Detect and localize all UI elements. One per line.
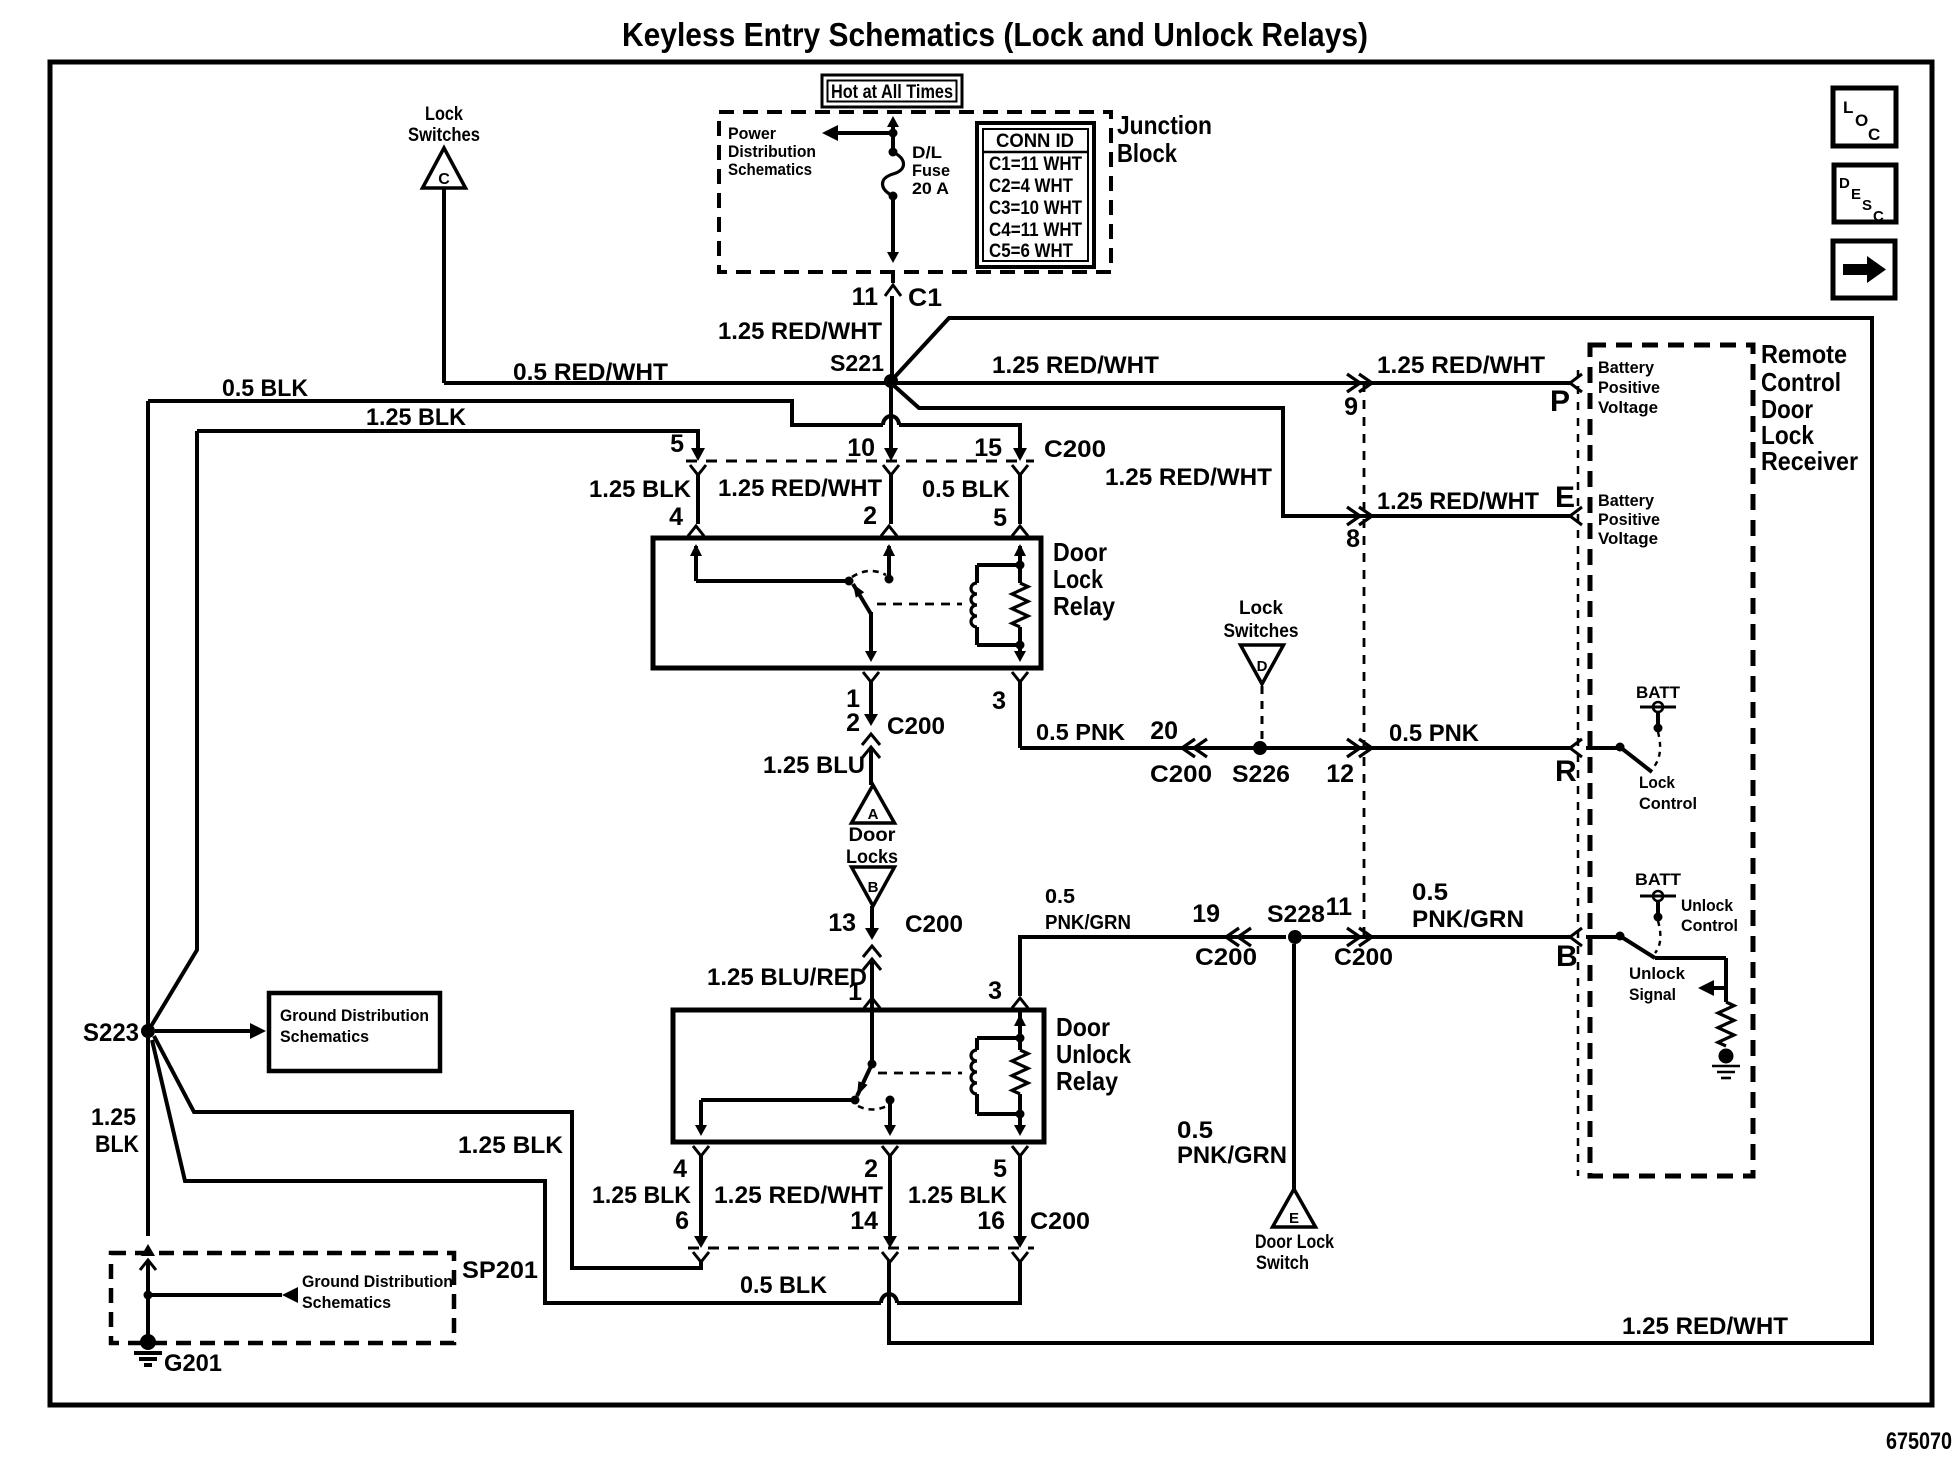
svg-text:1.25 RED/WHT: 1.25 RED/WHT (1377, 352, 1545, 379)
wire: 0.5 BLK pin 16 to S223 (897, 1262, 1020, 1303)
svg-text:1.25 RED/WHT: 1.25 RED/WHT (1105, 464, 1272, 491)
svg-text:1.25 BLK: 1.25 BLK (366, 404, 467, 431)
svg-text:1.25 BLU: 1.25 BLU (763, 752, 865, 779)
svg-text:Control: Control (1761, 367, 1841, 397)
svg-text:5: 5 (993, 1155, 1007, 1183)
Door Unlock Relay box (673, 1010, 1044, 1142)
ground G201 (140, 1334, 156, 1350)
svg-text:S: S (1862, 197, 1872, 214)
svg-text:5: 5 (993, 504, 1007, 532)
svg-text:E: E (1555, 481, 1575, 514)
svg-text:1.25 RED/WHT: 1.25 RED/WHT (1377, 488, 1539, 515)
svg-text:Relay: Relay (1053, 591, 1115, 621)
svg-text:B: B (1556, 940, 1578, 973)
wire: S221 to P (1.25 RED/WHT) (891, 381, 1572, 385)
svg-text:Positive: Positive (1598, 378, 1660, 397)
svg-text:PNK/GRN: PNK/GRN (1412, 906, 1524, 933)
svg-text:PNK/GRN: PNK/GRN (1045, 912, 1131, 934)
svg-text:0.5: 0.5 (1177, 1117, 1213, 1144)
svg-text:1.25 BLU/RED: 1.25 BLU/RED (707, 964, 867, 991)
svg-text:C2=4 WHT: C2=4 WHT (989, 176, 1073, 197)
svg-text:C: C (1868, 125, 1880, 144)
svg-text:C: C (438, 171, 450, 188)
svg-text:Unlock: Unlock (1681, 896, 1733, 915)
DESC icon (1834, 165, 1896, 222)
svg-text:Battery: Battery (1598, 358, 1655, 377)
svg-text:1.25 RED/WHT: 1.25 RED/WHT (992, 352, 1159, 379)
svg-text:2: 2 (863, 502, 877, 530)
lock relay resistor (1016, 561, 1025, 570)
svg-text:Schematics: Schematics (302, 1293, 391, 1312)
wire: S221 to E (1.25 RED/WHT) (891, 383, 1572, 516)
svg-text:Junction: Junction (1117, 110, 1212, 140)
svg-text:Ground Distribution: Ground Distribution (302, 1272, 453, 1291)
wire: 1.25 BLK pin 6 to S223 (154, 1036, 701, 1268)
power distribution reference arrow (838, 131, 893, 135)
wire: 1.25 RED/WHT pin 14 down to loop (887, 1262, 891, 1343)
lock relay pin 3 exit (1012, 672, 1028, 682)
connector 11 C200 column (1347, 928, 1360, 946)
svg-text:1.25 RED/WHT: 1.25 RED/WHT (1622, 1313, 1788, 1340)
svg-text:Switches: Switches (1224, 621, 1299, 642)
svg-text:12: 12 (1326, 760, 1354, 788)
svg-text:C200: C200 (1150, 761, 1212, 788)
svg-text:L: L (1843, 98, 1853, 117)
Remote Control Door Lock Receiver dashed box (1590, 345, 1753, 1176)
grid connector triangle E (1273, 1189, 1316, 1227)
svg-text:Ground Distribution: Ground Distribution (280, 1006, 429, 1025)
svg-text:11: 11 (1326, 893, 1353, 921)
grid connector triangle A (852, 785, 895, 823)
svg-text:0.5 BLK: 0.5 BLK (922, 476, 1011, 503)
unlock relay pin 3 entry (1012, 998, 1028, 1008)
svg-text:1.25 RED/WHT: 1.25 RED/WHT (714, 1182, 883, 1209)
svg-text:SP201: SP201 (462, 1257, 538, 1284)
svg-text:13: 13 (828, 909, 856, 937)
svg-text:9: 9 (1344, 393, 1358, 421)
grid connector triangle C (423, 148, 466, 188)
svg-text:PNK/GRN: PNK/GRN (1177, 1142, 1287, 1169)
svg-text:G201: G201 (164, 1350, 222, 1377)
svg-text:Signal: Signal (1629, 985, 1676, 1004)
svg-text:S221: S221 (830, 350, 884, 376)
svg-text:0.5 PNK: 0.5 PNK (1036, 719, 1125, 745)
lock relay switch (696, 579, 847, 583)
receiver connector dashed line (1577, 370, 1580, 1176)
svg-text:C200: C200 (905, 911, 963, 938)
svg-text:15: 15 (974, 434, 1002, 462)
unlock signal arrow (1714, 986, 1726, 990)
unlock relay switch (868, 1060, 877, 1069)
unlock relay pin 1 entry (864, 998, 880, 1008)
svg-text:1.25 BLK: 1.25 BLK (592, 1182, 692, 1209)
receiver resistor (1718, 1002, 1734, 1046)
svg-text:D/L: D/L (912, 143, 942, 162)
connector C1 pin 11 (891, 272, 895, 283)
connector 8 (C200 column) (1347, 507, 1360, 525)
svg-text:4: 4 (673, 1155, 687, 1183)
grid connector triangle B (852, 867, 895, 906)
svg-text:Battery: Battery (1598, 491, 1655, 510)
wire: 0.5 PNK lock relay pin 3 to R (1020, 746, 1572, 750)
svg-text:0.5 BLK: 0.5 BLK (222, 375, 309, 402)
svg-text:Control: Control (1639, 794, 1697, 813)
svg-text:Voltage: Voltage (1598, 529, 1658, 548)
svg-text:0.5 RED/WHT: 0.5 RED/WHT (513, 359, 668, 386)
svg-text:Unlock: Unlock (1056, 1039, 1131, 1069)
svg-text:1.25 RED/WHT: 1.25 RED/WHT (718, 475, 882, 502)
svg-text:4: 4 (669, 503, 683, 531)
svg-text:C200: C200 (1030, 1208, 1090, 1235)
connector C200 top dashed line (686, 460, 1034, 463)
LOC icon (1833, 88, 1896, 146)
lock relay pin 2 entry (881, 526, 897, 536)
svg-text:Positive: Positive (1598, 510, 1660, 529)
svg-text:675070: 675070 (1886, 1428, 1952, 1455)
svg-text:3: 3 (988, 977, 1002, 1005)
receiver pin R (1570, 739, 1582, 757)
svg-text:14: 14 (850, 1207, 878, 1235)
svg-text:BLK: BLK (95, 1131, 140, 1158)
svg-text:1.25 BLK: 1.25 BLK (908, 1182, 1008, 1209)
svg-text:Relay: Relay (1056, 1066, 1118, 1096)
svg-text:1.25: 1.25 (91, 1104, 136, 1131)
C200 bottom pin arrows (694, 1236, 708, 1248)
svg-text:C5=6 WHT: C5=6 WHT (989, 241, 1073, 262)
svg-text:Lock: Lock (1239, 598, 1283, 619)
splice S223 (141, 1024, 155, 1038)
svg-text:16: 16 (977, 1207, 1005, 1235)
svg-text:E: E (1851, 186, 1861, 203)
svg-text:20 A: 20 A (912, 179, 949, 198)
svg-text:C200: C200 (1195, 944, 1257, 971)
svg-text:1.25 BLK: 1.25 BLK (589, 476, 692, 503)
lock relay pin 4 entry (688, 526, 704, 536)
svg-text:Voltage: Voltage (1598, 398, 1658, 417)
svg-text:0.5 BLK: 0.5 BLK (740, 1272, 828, 1299)
wire: triangle B to connector 13 (870, 906, 874, 916)
svg-text:Unlock: Unlock (1629, 964, 1686, 983)
C200 in-line connector dashed column (1363, 383, 1366, 942)
svg-text:E: E (1289, 1210, 1299, 1227)
receiver pin B (1570, 928, 1582, 946)
svg-text:Switch: Switch (1256, 1253, 1309, 1274)
svg-text:Hot at All Times: Hot at All Times (831, 82, 953, 103)
svg-text:Distribution: Distribution (728, 142, 816, 161)
svg-text:O: O (1855, 111, 1868, 130)
svg-text:BATT: BATT (1636, 683, 1681, 702)
svg-text:0.5: 0.5 (1412, 879, 1448, 906)
svg-text:Control: Control (1681, 916, 1738, 935)
svg-text:Schematics: Schematics (728, 160, 812, 179)
next-page arrow icon (1833, 241, 1895, 298)
svg-text:P: P (1550, 385, 1570, 418)
svg-text:3: 3 (992, 687, 1006, 715)
svg-text:0.5: 0.5 (1045, 886, 1075, 908)
svg-text:D: D (1839, 175, 1850, 192)
svg-text:1.25 RED/WHT: 1.25 RED/WHT (718, 318, 882, 345)
wire: 0.5 BLK (left vertical to S223) (146, 401, 150, 1026)
wire: S223 down to G201 (146, 1031, 150, 1236)
svg-text:10: 10 (847, 434, 875, 462)
SP201 reference arrow (144, 1291, 153, 1300)
svg-text:Fuse: Fuse (912, 161, 950, 180)
svg-text:Door: Door (1053, 537, 1107, 567)
svg-text:C1: C1 (908, 284, 942, 312)
svg-text:C200: C200 (887, 713, 945, 740)
svg-text:R: R (1555, 755, 1577, 788)
svg-text:Power: Power (728, 124, 776, 143)
junction block dashed box (719, 112, 1111, 272)
connector 12 C200 column (1347, 739, 1360, 757)
svg-text:2: 2 (846, 709, 860, 737)
Hot at All Times tag (822, 75, 962, 107)
svg-text:C3=10 WHT: C3=10 WHT (989, 198, 1082, 219)
svg-text:C200: C200 (1334, 944, 1393, 971)
grid connector triangle D (1241, 645, 1284, 684)
wire: 0.5 PNK/GRN S228 to unlock pin 3 (1020, 937, 1286, 996)
svg-text:Switches: Switches (408, 125, 480, 146)
svg-text:Block: Block (1117, 138, 1177, 168)
wire: 0.5 PNK/GRN S228 to triangle E (1292, 944, 1296, 1189)
svg-text:Schematics: Schematics (280, 1027, 369, 1046)
CONN ID table (977, 123, 1094, 267)
svg-text:C1=11 WHT: C1=11 WHT (989, 154, 1082, 175)
svg-text:S223: S223 (83, 1019, 139, 1047)
Door Lock Relay box (653, 538, 1041, 668)
unlock relay switch-coil dashed link (878, 1072, 962, 1075)
svg-text:C4=11 WHT: C4=11 WHT (989, 220, 1082, 241)
S223 reference arrow (155, 1029, 250, 1033)
ground distribution reference box (S223) (269, 993, 440, 1071)
unlock relay resistor (1016, 1034, 1025, 1043)
svg-text:1.25 BLK: 1.25 BLK (458, 1132, 564, 1159)
svg-text:Locks: Locks (846, 847, 898, 868)
svg-text:C200: C200 (1044, 436, 1106, 463)
svg-text:6: 6 (675, 1207, 689, 1235)
svg-text:CONN ID: CONN ID (996, 131, 1074, 152)
svg-text:Remote: Remote (1761, 339, 1847, 369)
receiver pin E (1570, 507, 1582, 525)
svg-text:A: A (868, 806, 879, 823)
lock relay switch-coil dashed link (877, 603, 962, 606)
svg-text:2: 2 (864, 1155, 878, 1183)
lock control switch (1586, 746, 1617, 750)
unlock relay pin exits (693, 1146, 709, 1156)
SP201 dashed box (111, 1253, 454, 1343)
svg-text:S228: S228 (1267, 901, 1325, 928)
wire: 0.5 BLK (top run to pin 15) (148, 401, 883, 425)
wire: triangle D to S226 (dashed) (1261, 686, 1264, 742)
svg-text:Receiver: Receiver (1761, 446, 1858, 476)
wire: power loop 1.25 RED/WHT (S221 top right bottom) (889, 318, 1872, 1343)
fuse F (D/L Fuse 20 A) wire (891, 121, 895, 150)
svg-text:BATT: BATT (1635, 870, 1682, 889)
splice S228 (1288, 930, 1302, 944)
lock relay pin 1 exit (863, 672, 879, 682)
svg-text:20: 20 (1150, 717, 1178, 745)
svg-text:0.5 PNK: 0.5 PNK (1389, 720, 1480, 747)
unlock relay coil (977, 1036, 1020, 1040)
receiver pin P (1570, 374, 1582, 392)
svg-text:8: 8 (1346, 525, 1360, 553)
connector C200 bottom dashed line (688, 1247, 1034, 1250)
wire: S228 to B (1302, 935, 1572, 939)
wire: triangle C down to 0.5 RED/WHT run (442, 188, 446, 383)
svg-text:Lock: Lock (1639, 773, 1675, 792)
svg-text:B: B (868, 879, 879, 896)
svg-text:19: 19 (1192, 900, 1220, 928)
connector 9 (C200 column) (1347, 374, 1360, 392)
svg-text:1: 1 (848, 978, 862, 1006)
svg-text:S226: S226 (1232, 761, 1290, 788)
svg-text:Lock: Lock (425, 104, 463, 125)
svg-text:Door: Door (849, 825, 897, 846)
svg-text:Door Lock: Door Lock (1255, 1232, 1334, 1253)
svg-text:11: 11 (852, 283, 879, 311)
wire: C1 to S221 (1.25 RED/WHT) (890, 296, 894, 379)
unlock control switch (1586, 935, 1617, 939)
splice S226 (1253, 741, 1267, 755)
lock relay coil (977, 563, 1020, 567)
wire: 1.25 BLK (top run to pin 5) (150, 431, 197, 1028)
splice S221 (884, 374, 898, 388)
lock relay pin 5 entry (1012, 526, 1028, 536)
svg-text:Lock: Lock (1053, 564, 1103, 594)
svg-text:D: D (1257, 658, 1268, 675)
svg-text:5: 5 (670, 430, 684, 458)
svg-text:C: C (1873, 208, 1884, 225)
svg-text:Keyless Entry Schematics (Lock: Keyless Entry Schematics (Lock and Unloc… (622, 16, 1368, 53)
svg-text:Door: Door (1056, 1012, 1110, 1042)
receiver internal ground (1719, 1049, 1734, 1064)
